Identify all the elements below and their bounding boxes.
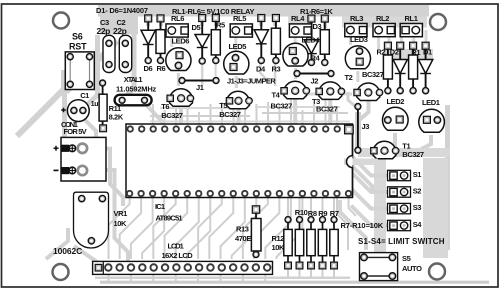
svg-text:22p: 22p	[97, 26, 111, 36]
wire traces IC last pins down right	[337, 198, 348, 250]
wire traces from IC top pins to transistor row	[152, 104, 154, 126]
svg-text:10K: 10K	[272, 243, 286, 252]
svg-text:LED4: LED4	[302, 36, 321, 45]
svg-text:BC327: BC327	[316, 104, 338, 113]
label IC1 AT89C51	[155, 202, 182, 222]
svg-text:22p: 22p	[113, 26, 127, 36]
svg-text:R10: R10	[295, 208, 308, 217]
wire traces LCD pin stubs	[108, 274, 110, 281]
wire trace behind RL4 label	[288, 17, 312, 25]
resistor R2	[377, 42, 393, 94]
svg-text:RL6: RL6	[171, 14, 184, 23]
diode D5	[192, 15, 210, 65]
diode D3	[304, 15, 321, 66]
wire trace under T1 row	[358, 148, 450, 157]
wire trace grey region behind limit switches right	[423, 158, 448, 258]
svg-text:R8: R8	[308, 209, 317, 218]
svg-text:T4: T4	[272, 90, 281, 99]
wire traces resistor bank verticals	[287, 198, 289, 219]
svg-text:16X2 LCD: 16X2 LCD	[162, 251, 194, 260]
resistor R6	[156, 15, 166, 73]
svg-text:FOR 5V: FOR 5V	[64, 127, 87, 136]
svg-text:8.2K: 8.2K	[109, 113, 124, 122]
resistor R13 470E	[235, 206, 261, 258]
wire trace grey region left of switches	[374, 158, 386, 252]
svg-text:S4: S4	[413, 220, 423, 229]
svg-text:R1: R1	[411, 48, 420, 57]
capacitor C1 1u	[61, 91, 98, 121]
svg-text:RL1: RL1	[405, 14, 418, 23]
svg-text:1u: 1u	[91, 101, 98, 108]
wire trace LED2 down	[393, 133, 397, 147]
svg-text:J1: J1	[196, 83, 204, 92]
wire trace behind C2 C3 caps	[100, 17, 138, 35]
svg-text:R3: R3	[272, 65, 281, 74]
connector CON1 FOR 5V	[54, 120, 107, 181]
transistor T1 BC327	[371, 141, 424, 159]
svg-text:T2: T2	[345, 73, 353, 82]
potentiometer VR1 10K	[74, 192, 128, 248]
svg-text:XTAL1: XTAL1	[124, 75, 143, 84]
wire trace C2 to xtal region	[123, 16, 134, 99]
svg-text:D4: D4	[256, 65, 266, 74]
capacitor C3 22p	[97, 18, 116, 72]
wire traces IC right to switches extra diagonals	[352, 166, 372, 192]
resistor R10	[295, 208, 308, 269]
svg-text:BC327: BC327	[161, 111, 183, 120]
LED LED2	[383, 97, 409, 130]
svg-text:R2: R2	[377, 48, 386, 57]
svg-text:RL2: RL2	[376, 14, 389, 23]
svg-text:J3: J3	[362, 122, 370, 131]
wire trace CON1 plus	[86, 149, 123, 206]
wire trace right riser	[445, 105, 450, 250]
wire trace CON1 minus	[86, 170, 128, 261]
IC U1 pin 40 square pad	[345, 125, 354, 134]
transistor T6 BC327	[161, 89, 194, 120]
mounting hole top left	[53, 13, 69, 29]
wire traces channel pads down stubs	[260, 64, 268, 81]
wire trace xtal to IC diag	[147, 106, 162, 124]
diode D6	[141, 15, 155, 73]
LED LED4	[283, 36, 320, 66]
mounting hole top right	[430, 14, 446, 30]
LED LED6	[166, 37, 191, 71]
resistor R11 8.2K	[99, 80, 124, 132]
diode D2	[390, 42, 408, 94]
wire trace below VR1	[74, 246, 100, 264]
resistor R8	[307, 209, 317, 269]
wire trace behind right diode cluster	[383, 49, 433, 59]
wire trace T3 to IC	[328, 93, 332, 124]
diode D1	[418, 42, 432, 94]
svg-text:RL4: RL4	[291, 14, 305, 23]
wire trace left of VR1	[46, 228, 68, 259]
resistor R9	[318, 209, 327, 269]
svg-text:RL5: RL5	[233, 14, 246, 23]
wire top bus trace	[98, 5, 429, 17]
resistor R12 10K	[284, 217, 292, 269]
crystal XTAL1 11.0592MHz	[115, 75, 157, 105]
switch S1	[388, 170, 422, 181]
wire trace J3 backing	[355, 112, 361, 148]
wire trace left column to CON1	[62, 90, 67, 137]
svg-text:BC327: BC327	[219, 110, 241, 119]
svg-text:S6: S6	[72, 31, 83, 41]
wire traces horizontal mid	[150, 115, 250, 117]
svg-text:S3: S3	[413, 203, 422, 212]
svg-text:LED6: LED6	[172, 37, 190, 46]
svg-text:R7: R7	[330, 209, 339, 218]
svg-text:BC327: BC327	[271, 101, 293, 110]
relay connector RL6	[166, 14, 188, 37]
wire diagonal trace behind S6	[66, 41, 117, 92]
switch S2	[388, 187, 422, 198]
switch S4	[388, 220, 423, 231]
jumper J1	[179, 78, 219, 92]
transistor T4 BC327	[271, 81, 310, 110]
resistor R1	[409, 42, 421, 94]
svg-text:R5: R5	[216, 21, 225, 30]
wire bottom bus trace	[95, 277, 350, 280]
svg-text:R6: R6	[157, 64, 166, 73]
relay connector RL2	[373, 14, 395, 37]
svg-text:S1-S4= LIMIT SWITCH: S1-S4= LIMIT SWITCH	[358, 237, 445, 246]
svg-text:10062C: 10062C	[53, 246, 82, 256]
jumper J3	[355, 104, 369, 154]
svg-text:T6: T6	[161, 102, 169, 111]
relay connector RL4	[289, 14, 311, 37]
wire trace T6 to IC	[179, 100, 183, 124]
capacitor C2 22p	[113, 18, 132, 72]
svg-text:470E: 470E	[235, 234, 251, 243]
svg-text:D1- D6=1N4007: D1- D6=1N4007	[96, 6, 148, 15]
wire trace T4 to IC	[293, 93, 297, 124]
wire traces RL connector stubs	[170, 37, 173, 47]
svg-text:LED3: LED3	[350, 35, 368, 44]
svg-text:T5: T5	[219, 101, 227, 110]
svg-text:AUTO: AUTO	[402, 264, 422, 273]
svg-text:R13: R13	[236, 225, 249, 234]
svg-text:R12: R12	[272, 234, 285, 243]
resistor R5	[211, 15, 225, 64]
relay connector RL1	[400, 14, 422, 37]
wire traces fan from IC bottom pins to LCD pins	[109, 198, 130, 259]
wire trace J3 top diag	[348, 92, 356, 107]
IC U1 AT89C51 body	[126, 124, 378, 198]
wire trace LED1 down	[416, 135, 431, 152]
resistor R3	[271, 15, 280, 74]
svg-text:BC327: BC327	[362, 70, 384, 79]
svg-text:IC1: IC1	[155, 202, 165, 211]
resistor R7	[330, 209, 339, 269]
svg-text:D5: D5	[192, 23, 201, 32]
svg-text:10K: 10K	[114, 219, 128, 228]
svg-text:J1-J3=JUMPER: J1-J3=JUMPER	[227, 77, 276, 86]
svg-text:S2: S2	[413, 187, 422, 196]
wire trace C1 to CON1 diag	[85, 120, 96, 137]
svg-text:AT89C51: AT89C51	[156, 213, 183, 222]
svg-text:RST: RST	[69, 41, 87, 51]
svg-text:11.0592MHz: 11.0592MHz	[116, 84, 157, 93]
jumper J2	[294, 71, 334, 86]
wire diagonal trace to left border	[17, 70, 64, 136]
svg-text:C1: C1	[80, 91, 89, 100]
svg-text:RL3: RL3	[350, 14, 363, 23]
svg-text:D6: D6	[144, 64, 153, 73]
IC U1 pin row bottom	[127, 191, 351, 196]
svg-text:LED1: LED1	[422, 98, 440, 107]
transistor T3 BC327	[312, 82, 345, 114]
IC U1 pin row top	[128, 126, 340, 131]
svg-text:S5: S5	[402, 254, 411, 263]
wire trace vertical left of caps	[87, 35, 98, 105]
mounting hole bottom right	[429, 264, 445, 280]
svg-text:T1: T1	[402, 141, 410, 150]
svg-text:LED2: LED2	[387, 97, 405, 106]
header LCD1 16X2 LCD	[93, 242, 273, 275]
switch S3	[388, 203, 422, 214]
LED LED5	[224, 42, 249, 74]
svg-text:R4: R4	[311, 54, 321, 63]
svg-text:D1: D1	[423, 48, 432, 57]
LED LED3	[345, 35, 370, 69]
wire trace behind RL3 RL2 RL1 labels	[342, 17, 427, 28]
LED LED1	[419, 98, 445, 132]
transistor T5 BC327	[219, 91, 252, 119]
wire trace T5 to IC	[237, 103, 241, 124]
mounting hole bottom left	[53, 264, 69, 280]
svg-text:R9: R9	[318, 209, 327, 218]
svg-text:LED5: LED5	[229, 42, 247, 51]
svg-text:J2: J2	[311, 76, 319, 85]
svg-text:R7-R10=10K: R7-R10=10K	[341, 221, 384, 230]
svg-text:S1: S1	[413, 170, 422, 179]
svg-text:D2: D2	[390, 48, 399, 57]
svg-text:BC327: BC327	[402, 150, 424, 159]
diode D4	[254, 15, 268, 74]
wire trace T2 bend	[357, 95, 369, 122]
wire traces LED to transistor stubs	[177, 73, 180, 86]
wire trace above IC horizontal	[150, 121, 350, 123]
switch S5 AUTO	[360, 253, 423, 281]
relay connector RL5	[230, 14, 252, 37]
wire trace behind diode channels	[146, 17, 150, 26]
relay connector RL3	[345, 14, 367, 37]
svg-text:LCD1: LCD1	[168, 242, 184, 251]
resistor R4	[311, 15, 330, 66]
transistor T2 BC327	[345, 70, 384, 101]
wire traces right cluster verticals	[388, 30, 391, 49]
svg-text:VR1: VR1	[114, 209, 128, 218]
switch S6 RST	[65, 31, 94, 89]
wire traces S1-S4 diagonal fan	[351, 156, 388, 176]
